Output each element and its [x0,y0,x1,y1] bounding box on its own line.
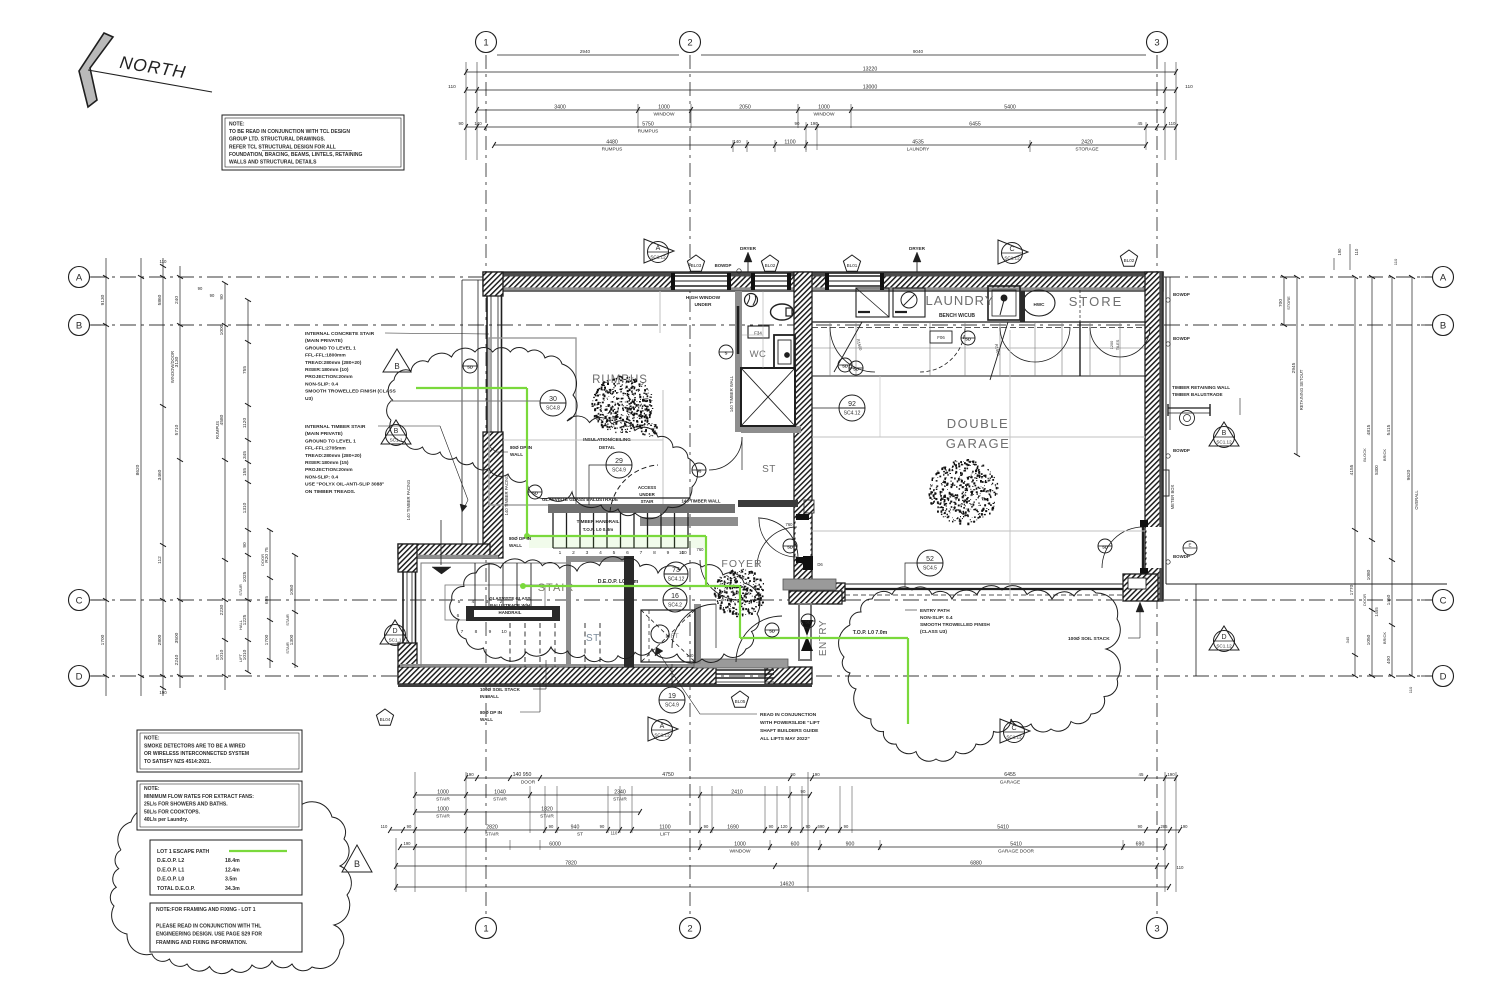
svg-text:1050: 1050 [1366,634,1372,645]
grid line 1 [485,55,487,915]
svg-text:5: 5 [613,550,616,556]
svg-text:900: 900 [846,841,855,847]
svg-text:STAIR: STAIR [540,814,554,820]
svg-text:190: 190 [466,772,474,777]
svg-text:2410: 2410 [731,789,743,795]
note box: structural [222,115,404,170]
svg-text:6880: 6880 [970,860,982,866]
svg-text:LIFT: LIFT [665,633,678,640]
fire wall centre [794,272,812,602]
svg-text:6455: 6455 [969,121,981,127]
svg-text:TIMBER HANDRAIL: TIMBER HANDRAIL [577,519,620,524]
svg-text:45: 45 [1139,772,1144,777]
svg-text:5410: 5410 [997,824,1009,830]
svg-text:SD: SD [842,364,848,369]
svg-text:110: 110 [448,84,456,90]
svg-text:BL03: BL03 [691,263,702,268]
circle ref tags [390,400,540,402]
svg-text:1: 1 [483,923,488,934]
svg-text:PLEASE READ IN CONJUNCTION WIT: PLEASE READ IN CONJUNCTION WITH THL [156,923,261,929]
svg-text:LAUNDRY: LAUNDRY [926,293,995,308]
svg-text:USE "POLYX OIL-ANTI-SLIP 3088: USE "POLYX OIL-ANTI-SLIP 3088" [305,482,384,488]
svg-text:34.3m: 34.3m [225,886,240,892]
tree garage [929,459,999,525]
entry porch walls [783,579,836,590]
svg-text:90: 90 [791,772,796,777]
rumpus upper gray rect [489,338,576,505]
svg-text:SHAFT BUILDERS GUIDE: SHAFT BUILDERS GUIDE [760,728,819,734]
meter box [1160,470,1169,496]
svg-text:5400: 5400 [1004,104,1016,110]
svg-text:1700: 1700 [264,634,270,645]
svg-text:B: B [76,320,82,331]
svg-text:WINDOW/DOOR: WINDOW/DOOR [170,351,175,383]
svg-text:4580: 4580 [219,414,225,425]
svg-text:40L/s per Laundry.: 40L/s per Laundry. [144,817,189,823]
wc door arc [709,437,742,470]
pentagon BL04 [376,709,393,725]
svg-text:240: 240 [174,296,180,304]
access under stair dashed arc [610,465,658,512]
svg-text:TO BE READ IN CONJUNCTION WITH: TO BE READ IN CONJUNCTION WITH TCL DESIG… [229,129,350,135]
svg-text:2: 2 [572,550,575,556]
svg-text:STORE: STORE [1286,296,1291,310]
svg-text:SD: SD [769,629,775,634]
svg-text:1120: 1120 [242,418,248,429]
svg-text:80Ø DP IN: 80Ø DP IN [510,445,533,450]
svg-text:5415: 5415 [1386,424,1392,435]
svg-text:1: 1 [483,37,488,48]
svg-text:NOTE:: NOTE: [144,736,160,742]
svg-text:TO SATISFY NZS 4514:2021.: TO SATISFY NZS 4514:2021. [144,759,212,765]
grid line D [91,675,1432,677]
svg-text:5710: 5710 [174,424,180,435]
svg-text:LOT 1 ESCAPE PATH: LOT 1 ESCAPE PATH [157,849,210,855]
svg-text:SD: SD [853,367,859,372]
svg-text:1225: 1225 [242,614,248,625]
lower stair [421,563,567,667]
svg-text:HANDRAIL: HANDRAIL [499,610,522,615]
svg-text:4815: 4815 [1366,424,1372,435]
svg-text:1000: 1000 [219,324,225,335]
svg-text:ACCESS: ACCESS [638,485,656,490]
note box smoke detectors [137,730,302,772]
svg-text:WINDOW: WINDOW [730,849,751,855]
green escape path [416,387,527,389]
svg-text:2: 2 [687,923,692,934]
svg-text:DRYER: DRYER [740,246,757,251]
svg-text:90: 90 [704,824,709,829]
svg-text:SC1.12: SC1.12 [650,255,666,260]
svg-text:BL05: BL05 [735,699,746,704]
svg-text:7820: 7820 [565,860,577,866]
svg-text:155: 155 [242,468,248,476]
svg-text:80Ø DP IN: 80Ø DP IN [480,710,503,715]
svg-text:1040: 1040 [494,789,506,795]
top symbols [644,239,674,263]
marker B left cloud [383,349,411,372]
svg-text:STAIR: STAIR [641,499,655,504]
svg-text:1025: 1025 [242,571,248,582]
svg-text:T.O.P. L0 0.8m: T.O.P. L0 0.8m [583,527,614,532]
svg-text:7: 7 [640,550,643,556]
svg-text:E: E [1188,543,1191,548]
svg-text:REFER TCL STRUCTURAL DESIGN FO: REFER TCL STRUCTURAL DESIGN FOR ALL [229,144,336,150]
svg-text:WALL: WALL [480,717,493,722]
marker B/SC1.1 left [381,420,411,444]
svg-text:9: 9 [489,629,492,635]
svg-text:(CLASS U3): (CLASS U3) [920,629,947,635]
svg-text:TREAD:280mm (280+20): TREAD:280mm (280+20) [305,453,362,459]
svg-text:TOTAL D.E.O.P.: TOTAL D.E.O.P. [157,886,196,892]
svg-text:ST: ST [762,464,776,475]
garage floor lines [812,436,1145,438]
cloud entry [450,557,760,663]
svg-text:110: 110 [381,824,388,829]
interior gray: wc wall [735,291,742,368]
svg-text:D: D [392,628,397,635]
svg-text:4535: 4535 [912,139,924,145]
right wall garage door gap [1147,527,1162,568]
svg-text:90: 90 [459,121,464,126]
lift lower dashed [694,604,701,664]
svg-text:3500: 3500 [174,632,180,643]
svg-text:13220: 13220 [863,66,878,72]
svg-text:WALLS AND STRUCTURAL DETAILS: WALLS AND STRUCTURAL DETAILS [229,160,317,166]
svg-text:GLASVISTE GLASS BALUSTRADE: GLASVISTE GLASS BALUSTRADE [542,497,618,502]
svg-text:STORAGE: STORAGE [1075,147,1098,153]
svg-text:90: 90 [549,824,554,829]
marker D/SC1.12 right [1209,626,1239,650]
cloud bottom right [839,586,1121,762]
lift shaft upper [735,368,741,432]
svg-text:READ IN CONJUNCTION: READ IN CONJUNCTION [760,712,817,718]
svg-text:2945: 2945 [1291,362,1297,373]
svg-text:14620: 14620 [780,881,795,887]
svg-text:HALL: HALL [238,619,243,630]
svg-text:1770: 1770 [1349,584,1355,595]
svg-text:NOTE:: NOTE: [144,786,160,792]
svg-text:9: 9 [667,550,670,556]
svg-text:190: 190 [1181,824,1189,829]
grid line C [91,599,1432,601]
svg-text:45: 45 [1138,121,1143,126]
gray band below st [640,517,738,526]
svg-text:BLOCK: BLOCK [1362,448,1367,462]
svg-text:B: B [394,362,399,371]
svg-text:1080: 1080 [1366,569,1372,580]
svg-text:MINIMUM FLOW RATES FOR EXTRACT: MINIMUM FLOW RATES FOR EXTRACT FANS: [144,794,254,800]
retaining wall right outside [1165,277,1167,584]
svg-text:2240: 2240 [174,654,180,665]
svg-text:1060: 1060 [289,584,295,595]
marker B/SC1.12 right [1209,422,1239,446]
right wall [1145,272,1163,601]
svg-text:SC1.12: SC1.12 [1216,440,1232,445]
svg-text:8: 8 [475,629,478,635]
svg-text:285: 285 [1161,824,1169,829]
svg-text:NOTE:FOR FRAMING AND FIXING -: NOTE:FOR FRAMING AND FIXING - LOT 1 [156,907,256,913]
svg-text:RISER:180mm (15): RISER:180mm (15) [305,460,349,466]
svg-text:(MAIN PRIVATE): (MAIN PRIVATE) [305,431,343,437]
svg-text:110: 110 [611,831,618,836]
top wall window 1 (high window) [675,274,727,289]
svg-text:19: 19 [668,693,676,700]
svg-text:690: 690 [818,824,826,829]
svg-text:13000: 13000 [863,84,878,90]
grid line A [91,276,1432,278]
svg-text:BENCH W/CUB: BENCH W/CUB [939,313,975,319]
svg-text:SC1.12: SC1.12 [1216,644,1232,649]
svg-text:1010: 1010 [219,649,225,660]
stair top dark band [548,504,735,513]
svg-text:FOYER: FOYER [721,558,762,570]
svg-text:100Ø SOIL STACK: 100Ø SOIL STACK [480,687,521,692]
svg-text:9130: 9130 [100,294,106,305]
svg-text:WITH POWERSLIDE “LIFT: WITH POWERSLIDE “LIFT [760,720,820,726]
driveway lines right [1166,583,1447,585]
svg-text:DOUBLE: DOUBLE [947,416,1009,431]
svg-text:STAIR: STAIR [493,797,507,803]
svg-text:1820: 1820 [541,806,553,812]
svg-text:SD: SD [787,545,793,550]
svg-text:SD: SD [532,491,538,496]
svg-text:4: 4 [472,599,475,605]
svg-text:U3): U3) [305,396,313,402]
svg-text:90: 90 [219,294,225,300]
exterior deck lines left [461,280,463,556]
svg-text:2420: 2420 [1081,139,1093,145]
svg-text:BOWDP: BOWDP [1173,336,1190,341]
marker D/SC1.1 left [380,620,410,644]
svg-text:WINDOW: WINDOW [814,112,835,118]
svg-text:SC4.9: SC4.9 [665,703,679,709]
svg-text:OR WIRELESS INTERCONNECTED SYS: OR WIRELESS INTERCONNECTED SYSTEM [144,751,249,757]
svg-text:WINDOW: WINDOW [654,112,675,118]
svg-text:5860: 5860 [157,294,163,305]
svg-text:D.E.O.P. L2: D.E.O.P. L2 [157,858,184,864]
svg-text:2340: 2340 [614,789,626,795]
svg-text:4480: 4480 [606,139,618,145]
svg-text:WC: WC [750,349,767,360]
svg-text:FOUNDATION, BRACING, BEAMS, LI: FOUNDATION, BRACING, BEAMS, LINTELS, RET… [229,152,363,158]
entry door arrows [801,620,813,636]
svg-text:2050: 2050 [739,104,751,110]
cupboard arcs [830,327,875,372]
top dimension rows [497,54,679,56]
svg-text:HIGH WINDOW: HIGH WINDOW [686,295,721,301]
svg-text:73: 73 [672,567,680,574]
svg-text:400: 400 [1386,656,1392,664]
svg-text:B: B [354,859,360,869]
svg-text:A: A [660,723,665,730]
svg-text:NOTE:: NOTE: [229,122,245,128]
svg-text:1300: 1300 [289,634,295,645]
svg-text:SC4.5: SC4.5 [923,566,937,572]
svg-text:760: 760 [786,522,794,527]
tree foyer [714,569,764,617]
svg-text:110: 110 [1393,258,1398,265]
laundry bench [856,288,889,317]
svg-text:1450: 1450 [1386,594,1392,605]
svg-text:3.5m: 3.5m [225,877,237,883]
svg-text:GROUND TO LEVEL 1: GROUND TO LEVEL 1 [305,438,356,444]
svg-text:110: 110 [1169,121,1177,126]
svg-text:GLASVISTE GLASS: GLASVISTE GLASS [489,596,530,601]
north arrow [79,33,113,107]
svg-text:5: 5 [458,599,461,605]
svg-text:190: 190 [812,772,820,777]
svg-text:2800: 2800 [157,634,163,645]
svg-text:TREAD:280mm (280+20): TREAD:280mm (280+20) [305,360,362,366]
svg-text:(MAIN PRIVATE): (MAIN PRIVATE) [305,338,343,344]
svg-text:3: 3 [586,550,589,556]
svg-text:SMOKE DETECTORS ARE TO BE A WI: SMOKE DETECTORS ARE TO BE A WIRED [144,743,246,749]
svg-text:PROJECTION:20mm: PROJECTION:20mm [305,467,353,473]
svg-text:NON-SLIP: 0.4: NON-SLIP: 0.4 [920,615,953,621]
cloud notes [110,794,351,973]
grid line 2 [689,55,691,915]
svg-text:1000: 1000 [818,104,830,110]
svg-text:80Ø DP IN: 80Ø DP IN [509,536,532,541]
svg-text:DETAIL: DETAIL [599,445,615,450]
foyer arcs [672,604,716,648]
svg-text:690: 690 [1136,841,1145,847]
svg-text:190: 190 [159,690,167,695]
svg-text:50L/s FOR COOKTOPS.: 50L/s FOR COOKTOPS. [144,809,201,815]
svg-text:B: B [1440,320,1446,331]
svg-text:140 TIMBER FACING: 140 TIMBER FACING [504,475,509,516]
svg-text:RUMPUS: RUMPUS [215,421,220,439]
svg-text:BRICK: BRICK [1382,449,1387,462]
svg-text:1310: 1310 [242,502,248,513]
svg-text:695: 695 [264,596,270,604]
garage south wall [790,583,845,601]
svg-text:LIFT: LIFT [660,832,670,838]
svg-text:112: 112 [157,556,163,564]
svg-text:345: 345 [242,451,248,459]
svg-text:SC4.8: SC4.8 [546,406,560,412]
porch steps [716,669,774,671]
svg-text:4750: 4750 [662,772,674,778]
svg-text:110: 110 [160,259,168,264]
st. room walls [566,556,571,667]
svg-text:T.O.P. L0 7.0m: T.O.P. L0 7.0m [853,630,888,636]
grid line B [91,324,1432,326]
st door arc to foyer [757,527,797,567]
svg-text:3: 3 [486,599,489,605]
svg-text:STORE: STORE [1069,294,1124,309]
svg-text:90: 90 [600,824,605,829]
svg-text:90: 90 [198,286,203,291]
bottom dimension rows [414,772,416,892]
svg-text:STAIR: STAIR [285,642,290,654]
left wall rumpus with window [483,272,503,296]
svg-text:IN WALL: IN WALL [480,694,499,699]
svg-text:C: C [1011,725,1016,732]
svg-text:BL01: BL01 [847,263,858,268]
svg-text:ALL LIFTS MAY 2022”: ALL LIFTS MAY 2022” [760,736,810,742]
svg-text:9040: 9040 [913,49,924,54]
svg-text:FFL-FFL:2705mm: FFL-FFL:2705mm [305,446,346,452]
svg-text:1000: 1000 [734,841,746,847]
svg-text:18.4m: 18.4m [225,858,240,864]
marker B bottom cloud [342,845,372,872]
svg-text:700: 700 [1278,299,1284,307]
svg-text:S: S [725,351,728,356]
svg-text:ON TIMBER TREADS.: ON TIMBER TREADS. [305,489,356,495]
note box framing [150,903,302,952]
svg-text:940: 940 [571,824,580,830]
svg-text:95: 95 [697,469,702,474]
svg-text:4: 4 [599,550,602,556]
svg-text:SD: SD [467,365,473,370]
grid line 3 [1156,55,1158,915]
svg-text:90: 90 [242,542,248,548]
svg-text:5300: 5300 [1374,465,1379,475]
svg-text:110: 110 [1185,84,1193,90]
svg-text:BL04: BL04 [380,717,391,722]
svg-text:GARAGE: GARAGE [946,436,1011,451]
svg-text:SMOOTH TROWELLED FINISH (CLASS: SMOOTH TROWELLED FINISH (CLASS [305,389,396,395]
svg-text:SC1.12: SC1.12 [1004,256,1020,261]
svg-text:STAIR: STAIR [285,614,290,626]
svg-text:BOWDP: BOWDP [1173,292,1190,297]
top wall [483,272,1163,291]
svg-text:90: 90 [844,824,849,829]
svg-text:30: 30 [549,396,557,403]
bottom symbols [648,717,678,741]
svg-text:SC1.1: SC1.1 [389,638,402,643]
svg-text:D: D [1221,634,1226,641]
svg-text:1200: 1200 [1110,341,1114,349]
svg-text:8620: 8620 [135,464,141,475]
svg-text:NON-SLIP: 0.4: NON-SLIP: 0.4 [305,474,338,480]
svg-text:755: 755 [242,366,248,374]
svg-text:SC4.12: SC4.12 [668,577,685,583]
svg-text:BOWDP: BOWDP [1173,448,1190,453]
wc shower symbol [745,294,758,307]
svg-text:R20 75: R20 75 [264,547,270,563]
small sd circles [719,345,733,359]
note box extract fans [137,781,302,830]
svg-text:12.4m: 12.4m [225,867,240,873]
svg-text:140 TIMBER FACING: 140 TIMBER FACING [406,480,411,521]
svg-text:3460: 3460 [157,469,163,480]
svg-text:RETAINING SETOUT: RETAINING SETOUT [1299,369,1304,410]
svg-text:1700: 1700 [100,634,106,645]
svg-text:90: 90 [801,789,806,794]
svg-text:FRAMING AND FIXING INFORMATION: FRAMING AND FIXING INFORMATION. [156,940,248,946]
fire wall foyer door opening [796,519,811,558]
svg-text:STAIR: STAIR [436,814,450,820]
svg-text:3400: 3400 [554,104,566,110]
svg-text:2: 2 [687,37,692,48]
svg-text:600: 600 [791,841,800,847]
svg-text:SC4.2: SC4.2 [668,603,682,609]
svg-text:3: 3 [1154,37,1159,48]
svg-text:INSULATION/CEILING: INSULATION/CEILING [583,437,631,442]
svg-text:ENGINEERING DESIGN. USE PAGE S: ENGINEERING DESIGN. USE PAGE S29 FOR [156,932,262,938]
svg-text:92: 92 [848,401,856,408]
note box escape path legend [150,840,302,895]
svg-text:TIMBER BALUSTRADE: TIMBER BALUSTRADE [1172,392,1223,397]
svg-text:STAIR: STAIR [238,584,243,596]
svg-text:140 950: 140 950 [513,772,532,778]
svg-text:140: 140 [733,139,741,144]
svg-text:BRICK: BRICK [1382,632,1387,645]
svg-text:6: 6 [626,550,629,556]
